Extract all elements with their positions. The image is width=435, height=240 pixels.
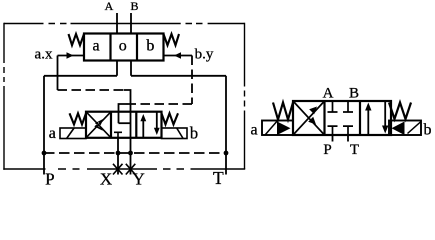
end cap b [162, 128, 188, 139]
svg-text:a: a [92, 38, 99, 55]
right valve T port [347, 135, 349, 142]
X port column below box [117, 138, 119, 175]
right valve main box [293, 101, 391, 135]
svg-text:X: X [100, 170, 112, 189]
right valve spring right [389, 103, 411, 120]
right valve arrow up [367, 105, 369, 135]
wire P vertical [43, 76, 45, 175]
spring left main [70, 113, 87, 124]
right valve bottom stub P [328, 126, 338, 135]
wire B line [130, 13, 132, 76]
spring right main [162, 113, 179, 124]
svg-text:o: o [119, 38, 127, 55]
crossed arrows left cell [86, 112, 111, 138]
svg-text:A: A [105, 0, 114, 13]
arrowhead a.x [67, 52, 74, 59]
solenoid a triangle [277, 122, 291, 136]
junction dot T [224, 151, 229, 156]
spring left pilot [69, 34, 85, 45]
pilot valve U1 box [84, 34, 164, 61]
arrow blob right X cell [308, 107, 317, 125]
right valve A stub [328, 101, 338, 112]
svg-text:P: P [323, 142, 331, 158]
arrow blob main X cell [94, 119, 103, 131]
wire pilot P drop [44, 75, 117, 77]
svg-text:b: b [190, 124, 198, 143]
arrowhead right up [365, 103, 371, 111]
plug asterisk X [113, 164, 123, 175]
right valve P port [332, 135, 334, 142]
arrow down right cell [156, 112, 158, 129]
svg-text:T: T [350, 142, 359, 158]
spring right pilot [164, 34, 180, 45]
right valve arrow down [384, 101, 386, 131]
wire b.y dashed horizontal [126, 103, 192, 105]
enclosure right border [244, 23, 246, 169]
end cap a [60, 128, 86, 139]
svg-text:Y: Y [133, 170, 145, 189]
svg-text:A: A [323, 86, 334, 102]
junction dot X [116, 151, 121, 156]
enclosure left border [3, 23, 5, 170]
svg-text:b.y: b.y [195, 47, 214, 63]
right valve B stub [343, 101, 353, 112]
plug asterisk Y [126, 164, 136, 175]
blocked port T-bar center cell [114, 132, 122, 138]
wire T vertical [225, 76, 227, 175]
svg-text:B: B [349, 86, 359, 102]
solenoid b box [389, 121, 421, 136]
svg-text:P: P [45, 170, 54, 189]
wire b.y arrow line [164, 55, 193, 57]
wire a.x corner to Y column [124, 90, 131, 175]
wire a.x arrow line [58, 55, 85, 57]
junction dot P [42, 151, 47, 156]
wire pilot T drop [131, 75, 226, 77]
arrowhead right down [382, 126, 388, 134]
svg-text:b: b [146, 38, 154, 55]
right valve bottom stub T [343, 126, 353, 135]
wire bridge in center cell [119, 122, 131, 124]
right valve crossed arrows [293, 101, 325, 135]
arrowhead b.y [174, 52, 181, 59]
svg-text:T: T [213, 168, 224, 188]
enclosure bottom border [3, 168, 245, 170]
wire b.y corner stub into box [119, 104, 127, 123]
svg-text:a: a [250, 122, 257, 139]
enclosure top border [4, 23, 245, 25]
svg-text:a: a [49, 125, 56, 142]
wire a.x vertical [57, 56, 59, 91]
main valve V1 box [86, 112, 162, 138]
wire a.x dashed horizontal [58, 89, 125, 91]
svg-text:a.x: a.x [35, 47, 53, 63]
arrowhead main up [140, 114, 146, 121]
arrow up right cell [142, 117, 144, 138]
solenoid b triangle [392, 122, 405, 136]
solenoid a box [262, 121, 293, 136]
dashed pilot gallery line [44, 152, 226, 154]
wire A line [116, 13, 118, 76]
right valve spring left [273, 103, 293, 120]
junction dot Y [128, 151, 133, 156]
arrowhead main down [154, 128, 160, 135]
wire b.y dashed vertical [191, 56, 193, 105]
svg-text:b: b [424, 122, 432, 139]
svg-text:B: B [130, 0, 138, 13]
